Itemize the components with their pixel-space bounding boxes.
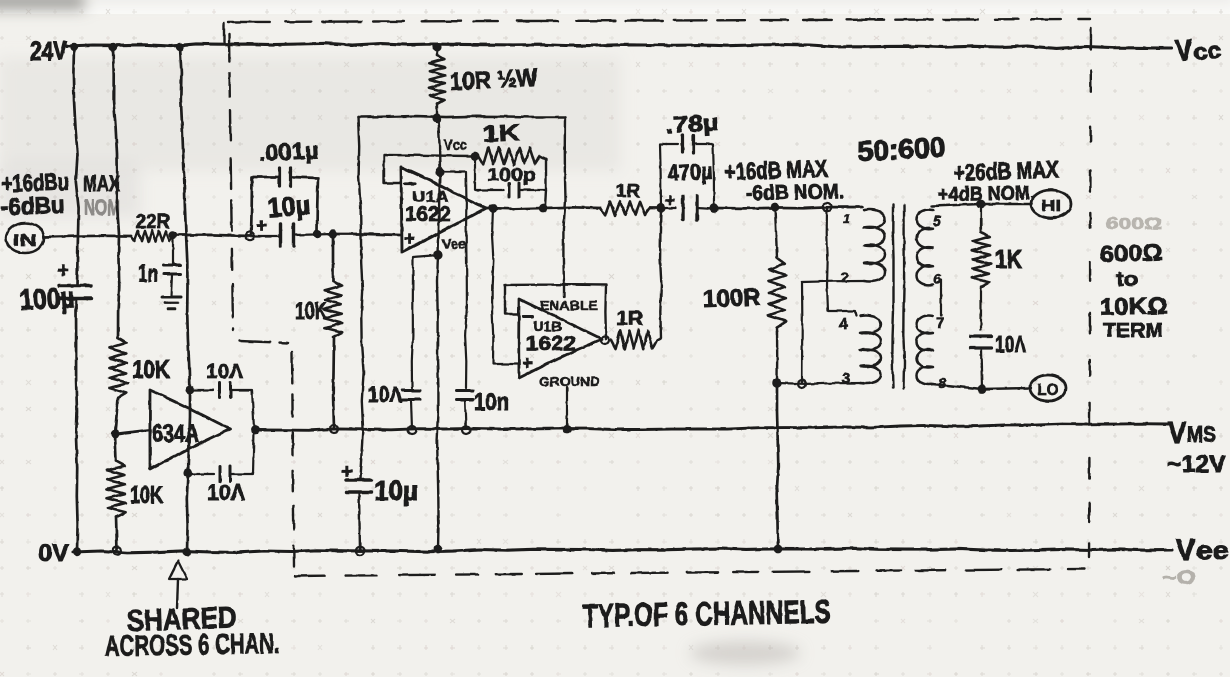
wire junction to U1A noninv input	[333, 234, 400, 235]
label 10u decouple	[374, 475, 418, 506]
wire U1A output	[486, 207, 600, 209]
capacitor 10n feedback lower (634A)	[188, 431, 254, 482]
label MAX	[83, 171, 120, 196]
label + (470u)	[665, 191, 675, 210]
svg-text:+4dB NOM.: +4dB NOM.	[938, 182, 1035, 206]
op-amp U1B 1622	[519, 298, 602, 389]
label 22R	[136, 211, 171, 233]
svg-text:600Ω: 600Ω	[1099, 239, 1163, 267]
svg-text:8: 8	[938, 375, 947, 392]
transformer T1 secondary winding 7-8	[917, 316, 934, 385]
svg-text:.001µ: .001µ	[258, 137, 319, 166]
node 10n Vcc-decouple at VMS (open)	[462, 426, 470, 434]
label 10K lower	[130, 482, 163, 509]
svg-text:10n: 10n	[474, 389, 509, 416]
node 470u left	[656, 203, 665, 212]
resistor 10K divider lower	[106, 461, 125, 517]
wire local Vcc box left edge down to 10u decouple	[358, 117, 364, 479]
capacitor 10n U1A Vee decouple	[402, 255, 438, 429]
svg-text:IN: IN	[13, 231, 37, 250]
node 10u decouple at Vee rail (open)	[356, 547, 364, 555]
node feedback / 1K left	[471, 152, 480, 161]
label pin 5	[933, 213, 942, 230]
svg-text:634A: 634A	[152, 420, 199, 448]
resistor 10K bias to VMS	[324, 281, 343, 337]
wire 22R node to 10u input node	[173, 235, 250, 236]
label NOM (faint)	[84, 195, 120, 220]
svg-text:1R: 1R	[616, 181, 640, 201]
label 1K feedback	[482, 119, 521, 147]
label + (100u polarity)	[57, 259, 69, 282]
wire local Vcc box top	[358, 116, 565, 117]
capacitor 100u electrolytic (24V to 0V)	[59, 286, 91, 553]
wire 10u to junction	[294, 234, 333, 235]
dashed box bottom edge	[295, 569, 1085, 576]
svg-text:ENABLE: ENABLE	[540, 298, 598, 313]
resistor 1R servo	[611, 330, 657, 349]
svg-text:+: +	[665, 191, 675, 210]
transformer T1 secondary winding 5-6	[917, 210, 934, 286]
terminal IN	[6, 223, 44, 253]
wire junction down to 10K bias	[332, 234, 335, 281]
svg-text:24V: 24V	[30, 36, 67, 66]
label +16dBu	[1, 169, 69, 198]
terminal HI	[1031, 190, 1071, 218]
capacitor 10n feedback upper (634A)	[190, 383, 254, 430]
node lower 10K at 0V rail (open)	[113, 547, 121, 555]
svg-text:to: to	[1116, 269, 1138, 291]
wire 10K to divider node	[115, 398, 118, 434]
node U1A output A	[489, 204, 498, 213]
svg-text:Vee: Vee	[442, 236, 466, 253]
wire local Vcc box right edge	[563, 117, 565, 285]
resistor 10K divider upper	[109, 338, 128, 398]
label pin 3	[842, 370, 850, 387]
wire 24V rail down through 634A to 0V rail	[180, 47, 190, 552]
label 10K ohm	[1100, 293, 1168, 321]
node 100R bottom	[772, 378, 782, 388]
label TERM	[1103, 320, 1163, 342]
node U1A output B	[539, 204, 548, 213]
svg-text:~12V: ~12V	[1167, 451, 1226, 478]
label SHARED	[126, 601, 237, 638]
label 10R 1/2W	[449, 64, 539, 96]
label 600 ohm	[1099, 239, 1163, 267]
label 0V	[38, 540, 69, 567]
wire pin4 feed (tap to lower winding)	[827, 207, 856, 316]
arrow shared-across-6-chan	[169, 561, 187, 608]
capacitor 1n to ground	[164, 235, 181, 296]
svg-text:10µ: 10µ	[374, 475, 418, 506]
label 10n upper (634A)	[206, 361, 244, 383]
svg-text:ee: ee	[1196, 537, 1229, 565]
wire 24V rail down to 100u cap	[73, 47, 78, 285]
svg-text:+: +	[57, 259, 69, 282]
node 100u line at 0V rail	[73, 548, 81, 556]
svg-text:470µ: 470µ	[667, 158, 713, 186]
svg-text:10Λ: 10Λ	[368, 382, 402, 407]
wire 24V / Vcc top supply rail	[66, 43, 1171, 48]
resistor 1K zobel	[971, 204, 991, 330]
dashed box left edge lower	[292, 352, 294, 566]
label 10K upper	[132, 356, 170, 384]
node 24V rail at x180	[176, 43, 184, 51]
node 24V rail at x113	[109, 43, 117, 51]
node 10u input (open)	[246, 232, 254, 240]
wire feedback down to output	[545, 190, 546, 207]
svg-text:5: 5	[933, 213, 942, 230]
node 100R top	[771, 203, 780, 212]
node 634A supply entry	[185, 385, 194, 394]
dashed box right edge	[1089, 28, 1091, 557]
label ~12V	[1167, 451, 1226, 478]
svg-text:1622: 1622	[526, 333, 576, 355]
svg-text:1K: 1K	[995, 244, 1022, 274]
wire 1K right end down	[540, 156, 546, 189]
wire 100R bottom to Vee rail	[777, 383, 779, 549]
svg-text:1R: 1R	[616, 308, 644, 330]
svg-text:V: V	[1168, 417, 1186, 450]
node U1A Vcc pin	[435, 167, 444, 176]
resistor 22R	[131, 231, 173, 242]
wire pin 3 to 100R bottom	[777, 382, 864, 385]
wire pin 2 return	[802, 281, 864, 383]
wire secondary 6-7 series link	[940, 280, 942, 316]
svg-text:ACROSS 6 CHAN.: ACROSS 6 CHAN.	[105, 628, 281, 663]
node 10R at 24V rail	[432, 42, 441, 51]
label 10K bias	[295, 298, 327, 325]
resistor 10R 1/2W supply dropper	[429, 47, 445, 117]
label pin 8	[938, 375, 947, 392]
svg-text:TYP.OF 6 CHANNELS: TYP.OF 6 CHANNELS	[582, 593, 831, 634]
svg-text:100µ: 100µ	[19, 282, 76, 317]
node after 10u A	[313, 230, 321, 238]
svg-text:+: +	[341, 461, 353, 483]
label .001u	[258, 137, 319, 166]
wire lower 10K to 0V rail	[116, 517, 117, 551]
wire 24V rail down to 10K divider	[113, 47, 119, 338]
svg-text:.78µ: .78µ	[665, 109, 719, 138]
wire U1B feedback loop (inv input to output)	[505, 285, 606, 339]
svg-text:+: +	[256, 216, 267, 237]
svg-text:2: 2	[841, 269, 849, 286]
node transformer pin4 tap (open)	[823, 203, 831, 211]
wire U1A feedback to inv input	[384, 155, 474, 183]
label 100R	[702, 284, 761, 313]
capacitor 100p feedback	[475, 156, 546, 197]
node zobel top	[977, 200, 986, 209]
transformer T1 primary winding 1-2	[864, 210, 885, 282]
resistor 1R build-out	[600, 201, 650, 216]
svg-text:V: V	[1174, 34, 1193, 68]
label 1R build-out	[616, 181, 640, 201]
label -6dBu	[0, 192, 65, 221]
svg-text:10K: 10K	[130, 482, 163, 509]
wire 470u node to transformer	[714, 207, 862, 208]
label 1R servo	[616, 308, 644, 330]
svg-text:MS: MS	[1187, 422, 1216, 447]
svg-text:10Λ: 10Λ	[995, 331, 1026, 357]
label pin 1	[843, 211, 850, 226]
wire enable from Vcc box down to U1B	[563, 285, 565, 297]
node U1B output (open)	[601, 336, 609, 344]
node 634A output	[251, 426, 260, 435]
wire U1A output down to U1B noninv input	[492, 208, 518, 364]
svg-text:1622: 1622	[405, 203, 451, 226]
capacitor 10u series electrolytic	[250, 224, 294, 246]
svg-text:10Λ: 10Λ	[207, 480, 245, 505]
op-amp U1A 1622	[401, 167, 486, 252]
svg-text:cc: cc	[1193, 37, 1223, 66]
svg-text:1K: 1K	[482, 119, 521, 147]
svg-text:10K: 10K	[132, 356, 170, 384]
label Vcc pin	[444, 137, 467, 154]
svg-text:GROUND: GROUND	[539, 374, 600, 389]
node divider midpoint	[111, 430, 119, 438]
wire VMS mid rail (634A output to right edge)	[255, 424, 1168, 431]
label .78u	[665, 109, 719, 138]
capacitor 10n U1A Vcc decouple	[440, 172, 474, 429]
label +26dB MAX	[953, 156, 1059, 187]
label 10n (Vee decouple)	[368, 382, 402, 407]
svg-text:V: V	[1176, 534, 1195, 567]
svg-text:+: +	[404, 229, 415, 250]
label 10n zobel	[995, 331, 1026, 357]
svg-text:1n: 1n	[138, 260, 158, 288]
node 100R at Vee rail	[774, 545, 783, 554]
node U1A Vee pin	[433, 250, 442, 259]
svg-text:Vcc: Vcc	[444, 137, 467, 154]
label Vcc (right end of top rail)	[1174, 34, 1222, 68]
svg-text:4: 4	[839, 316, 848, 333]
wire 0V / Vee bottom rail	[73, 548, 1172, 553]
transformer T1 primary winding 4-3	[860, 316, 881, 384]
label Vee (right end of bottom rail)	[1176, 534, 1229, 567]
label 470u	[667, 158, 713, 186]
wire 1R servo up to 470u node	[657, 208, 661, 340]
label TYP. OF 6 CHANNELS	[582, 593, 831, 634]
label -6dB NOM.	[746, 180, 844, 205]
node 10R at Vcc box	[432, 113, 441, 122]
capacitor 470u series electrolytic	[661, 196, 714, 220]
label 10n lower (634A)	[207, 480, 245, 505]
svg-text:MAX: MAX	[83, 171, 120, 196]
capacitor .78u film bypass	[660, 136, 714, 209]
label 10u series	[266, 190, 311, 223]
label to	[1116, 269, 1138, 291]
svg-text:LO: LO	[1037, 382, 1059, 399]
svg-text:10KΩ: 10KΩ	[1100, 293, 1168, 321]
svg-text:10µ: 10µ	[266, 190, 311, 223]
node after 10u B	[329, 230, 337, 238]
node shared line at 0V rail	[182, 547, 191, 556]
svg-text:100R: 100R	[702, 284, 761, 313]
svg-text:0V: 0V	[38, 540, 69, 567]
dashed box left jog	[240, 341, 288, 343]
svg-text:7: 7	[936, 315, 944, 332]
capacitor 10n zobel	[971, 336, 992, 389]
label pin 4	[839, 316, 848, 333]
node U1A Vee at bottom rail	[434, 545, 443, 554]
transformer T1 core	[892, 205, 904, 388]
svg-text:~O: ~O	[1162, 568, 1196, 589]
dashed box left edge upper	[229, 34, 233, 330]
svg-text:-6dBu: -6dBu	[0, 192, 65, 221]
node 10K bias at VMS (open)	[330, 425, 338, 433]
wire secondary bottom to LO	[932, 384, 1031, 389]
node pin2/pin3 join (open)	[798, 380, 806, 388]
label ACROSS 6 CHAN.	[105, 628, 281, 663]
svg-text:3: 3	[842, 370, 850, 387]
label Vee pin	[442, 236, 466, 253]
svg-text:100p: 100p	[487, 165, 536, 185]
svg-text:NOM: NOM	[84, 195, 120, 220]
wire 1R to 470u node	[650, 207, 661, 210]
node zobel bottom	[978, 385, 987, 394]
label VMS	[1168, 417, 1216, 450]
label pin 6	[933, 271, 942, 288]
node U1B ground at VMS	[563, 425, 572, 434]
svg-text:U1B: U1B	[533, 318, 562, 334]
svg-text:10Λ: 10Λ	[206, 361, 244, 383]
label 24V	[30, 36, 67, 66]
node 470u right	[710, 204, 719, 213]
svg-text:-6dB NOM.: -6dB NOM.	[746, 180, 844, 205]
wire Vcc stub into U1A / through to Vee	[437, 118, 440, 548]
label 1K zobel	[995, 244, 1022, 274]
label 50:600	[857, 131, 947, 167]
wire secondary top to HI	[932, 204, 1032, 206]
node 24V rail at x74	[70, 43, 78, 51]
label 600 ohm (ghost pencil)	[1106, 214, 1162, 233]
svg-text:TERM: TERM	[1103, 320, 1163, 342]
svg-text:1: 1	[843, 211, 850, 226]
label pin 2	[841, 269, 849, 286]
svg-text:22R: 22R	[136, 211, 171, 233]
svg-text:50:600: 50:600	[857, 131, 947, 167]
capacitor .001u bypass branch	[251, 168, 318, 236]
resistor 1K feedback	[478, 147, 540, 165]
label +4dB NOM.	[938, 182, 1035, 206]
resistor 100R damping	[768, 207, 786, 383]
label 10n (Vcc decouple)	[474, 389, 509, 416]
node 10n Vee-decouple at VMS (open)	[408, 426, 416, 434]
label 1n	[138, 260, 158, 288]
svg-text:600Ω: 600Ω	[1106, 214, 1162, 233]
svg-text:+: +	[522, 353, 533, 373]
wire 10K bias to VMS rail	[332, 337, 336, 428]
label + (10u decouple)	[341, 461, 353, 483]
svg-text:10K: 10K	[295, 298, 327, 325]
label 100u	[19, 282, 76, 317]
op-amp U2 634A reference	[150, 390, 230, 469]
wire U1B ground pin to VMS rail	[566, 387, 568, 429]
label 100p	[487, 165, 536, 185]
svg-text:10R ½W: 10R ½W	[449, 64, 539, 96]
label +16dB MAX	[724, 155, 828, 186]
label ~0 ghost	[1162, 568, 1196, 589]
label pin 7	[936, 315, 944, 332]
svg-text:HI: HI	[1041, 198, 1061, 215]
node 22R output	[169, 231, 177, 239]
label + (10u polarity)	[256, 216, 267, 237]
dashed box top edge (typ-of-6-channels boundary)	[224, 19, 1090, 42]
wire IN to 22R	[44, 236, 131, 237]
wire divider node to 634A inv input	[115, 430, 149, 434]
capacitor 10u Vcc decouple (to Vee rail)	[347, 480, 372, 551]
terminal LO	[1030, 375, 1066, 401]
ground symbol (1n cap)	[162, 297, 181, 309]
wire divider node to lower 10K	[115, 434, 116, 461]
node 634A ground exit	[183, 468, 192, 477]
